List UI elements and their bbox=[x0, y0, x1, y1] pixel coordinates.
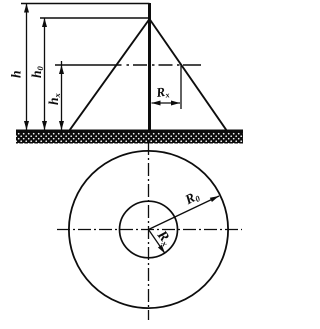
arrowhead hx top bbox=[59, 65, 64, 74]
level line h0 bbox=[40, 17, 150, 19]
vertical center line bbox=[148, 142, 150, 320]
arrowhead h top bbox=[24, 4, 29, 13]
svg-text:Rx: Rx bbox=[153, 227, 174, 248]
inner circle Rx bbox=[120, 201, 178, 258]
dimension line h0 bbox=[44, 19, 46, 130]
mast (vertical rod) bbox=[148, 3, 151, 133]
svg-text:Rx: Rx bbox=[154, 83, 170, 101]
svg-text:h: h bbox=[9, 70, 24, 78]
earth hatch band bbox=[16, 132, 243, 144]
arrowhead h bottom bbox=[24, 121, 29, 130]
svg-text:hx: hx bbox=[46, 92, 62, 105]
arrowhead Rx left bbox=[152, 101, 161, 106]
radius arrow R0 bbox=[149, 196, 220, 230]
top level line h bbox=[21, 3, 150, 5]
radius arrow Rx (plan) bbox=[149, 230, 166, 254]
right cone edge (guy line) bbox=[150, 19, 228, 131]
ground line bbox=[16, 130, 243, 133]
dimension line hx bbox=[61, 61, 63, 130]
dimension Rx horizontal bbox=[152, 102, 181, 104]
arrowhead R0 bbox=[210, 194, 220, 202]
arrowhead hx bottom bbox=[59, 121, 64, 130]
svg-text:h0: h0 bbox=[29, 65, 45, 78]
arrowhead Rx right bbox=[171, 101, 180, 106]
arrowhead Rx (plan) bbox=[158, 245, 167, 255]
extension tick at Rx bbox=[180, 64, 182, 109]
outer circle R0 bbox=[69, 151, 228, 308]
hx level line (dash-dot) bbox=[55, 64, 201, 66]
dimension line h bbox=[26, 4, 28, 130]
arrowhead h0 bottom bbox=[42, 121, 47, 130]
left cone edge (guy line) bbox=[69, 19, 150, 131]
horizontal center line bbox=[57, 229, 242, 231]
arrowhead h0 top bbox=[42, 18, 47, 27]
